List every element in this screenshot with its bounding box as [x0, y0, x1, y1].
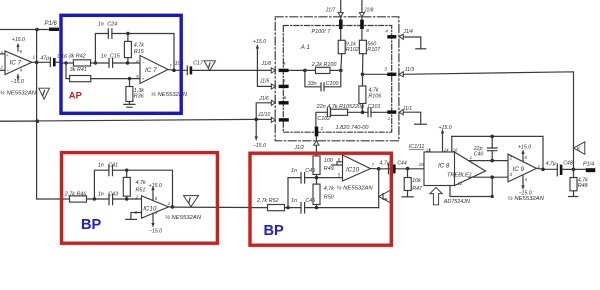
svg-text:15: 15: [419, 162, 425, 167]
svg-text:C101: C101: [368, 104, 381, 110]
svg-text:C43: C43: [108, 192, 118, 198]
svg-text:4,7µ: 4,7µ: [546, 161, 556, 167]
svg-text:−15.0: −15.0: [253, 143, 266, 149]
svg-text:R106: R106: [368, 93, 381, 99]
svg-text:22n: 22n: [316, 104, 326, 110]
svg-text:1n: 1n: [98, 192, 104, 198]
svg-text:J1/6: J1/6: [258, 96, 269, 102]
svg-text:BP: BP: [264, 223, 285, 239]
svg-text:2,7k R52: 2,7k R52: [256, 198, 279, 204]
svg-text:4: 4: [385, 29, 388, 34]
svg-text:AD7524JN: AD7524JN: [443, 199, 470, 205]
svg-text:C15: C15: [110, 53, 121, 59]
svg-text:A 1: A 1: [300, 44, 311, 51]
svg-text:1: 1: [470, 155, 472, 160]
svg-text:C100: C100: [326, 81, 339, 87]
svg-text:4,7k: 4,7k: [134, 42, 144, 48]
svg-text:R51: R51: [136, 188, 146, 194]
svg-text:1.820.740-00: 1.820.740-00: [336, 125, 370, 131]
svg-text:−15.0: −15.0: [11, 79, 24, 85]
svg-text:5: 5: [283, 78, 286, 83]
svg-text:IC 7: IC 7: [10, 60, 22, 67]
svg-text:12: 12: [458, 181, 463, 186]
svg-text:C44: C44: [397, 160, 407, 166]
svg-text:R50: R50: [324, 194, 334, 200]
svg-text:J1/8: J1/8: [261, 61, 272, 67]
svg-text:+: +: [142, 77, 145, 82]
svg-text:IC1/11: IC1/11: [409, 144, 424, 150]
svg-text:1n: 1n: [98, 162, 104, 168]
svg-text:−15.0: −15.0: [149, 228, 162, 234]
svg-text:AP: AP: [69, 90, 82, 101]
svg-text:33n: 33n: [308, 81, 317, 87]
svg-text:−: −: [142, 60, 145, 65]
svg-text:C46: C46: [305, 198, 315, 204]
svg-text:6: 6: [284, 95, 287, 100]
svg-text:4,7k: 4,7k: [324, 186, 334, 192]
svg-text:IC 7: IC 7: [145, 67, 157, 74]
svg-text:R49: R49: [324, 166, 334, 172]
svg-text:R47: R47: [412, 186, 423, 192]
svg-text:+15.0: +15.0: [253, 39, 266, 45]
svg-text:K: K: [577, 147, 581, 153]
svg-text:C41: C41: [108, 162, 118, 168]
svg-text:8: 8: [366, 28, 369, 33]
svg-text:½ NE5532AN: ½ NE5532AN: [508, 195, 545, 202]
svg-text:R36: R36: [134, 94, 144, 100]
svg-text:½ NE5532AN: ½ NE5532AN: [0, 90, 37, 97]
svg-text:1n: 1n: [291, 168, 297, 174]
svg-text:10k: 10k: [412, 178, 421, 184]
svg-text:J1/5: J1/5: [259, 79, 270, 85]
svg-text:C40: C40: [474, 152, 484, 158]
svg-text:9: 9: [283, 61, 286, 66]
svg-text:+15.0: +15.0: [12, 37, 25, 43]
svg-text:3: 3: [384, 66, 387, 71]
svg-text:1n: 1n: [98, 22, 104, 28]
svg-text:J1/1: J1/1: [402, 106, 413, 112]
svg-text:100: 100: [324, 158, 333, 164]
svg-text:J1/7: J1/7: [325, 7, 336, 13]
svg-text:4,7k: 4,7k: [136, 180, 146, 186]
svg-text:+15.0: +15.0: [439, 125, 452, 131]
svg-text:1: 1: [168, 201, 170, 206]
svg-text:1n: 1n: [291, 198, 297, 204]
svg-text:+: +: [6, 53, 9, 58]
svg-text:J1/2: J1/2: [294, 145, 305, 151]
svg-text:3k R42: 3k R42: [69, 53, 86, 59]
svg-text:J1/10: J1/10: [257, 112, 270, 118]
svg-text:P100/ 7: P100/ 7: [312, 29, 332, 35]
svg-text:R102: R102: [346, 47, 359, 53]
svg-text:C102: C102: [317, 116, 330, 122]
svg-text:−: −: [6, 68, 9, 73]
svg-text:2: 2: [320, 126, 324, 131]
svg-text:220p: 220p: [351, 104, 364, 110]
svg-text:1n: 1n: [101, 53, 107, 59]
svg-text:+15.0: +15.0: [518, 145, 531, 151]
svg-text:J1/3: J1/3: [404, 67, 415, 73]
svg-text:4,7k R105: 4,7k R105: [327, 104, 353, 110]
svg-text:47µ: 47µ: [40, 55, 49, 61]
svg-text:R15: R15: [134, 49, 145, 55]
svg-text:1: 1: [33, 55, 35, 60]
svg-text:IC 8: IC 8: [438, 162, 450, 169]
svg-text:2,7k R46: 2,7k R46: [64, 191, 87, 197]
svg-text:R48: R48: [578, 183, 588, 189]
svg-text:BP: BP: [81, 217, 102, 233]
svg-text:1: 1: [388, 116, 391, 121]
svg-text:J1/4: J1/4: [402, 29, 413, 35]
svg-text:C45: C45: [305, 168, 316, 174]
svg-text:½ NE5532AN: ½ NE5532AN: [337, 184, 374, 191]
svg-text:IC10: IC10: [346, 166, 360, 173]
svg-text:C48: C48: [563, 161, 573, 167]
svg-text:R107: R107: [367, 47, 381, 53]
svg-text:2,2k R100: 2,2k R100: [311, 62, 337, 68]
svg-text:J1/8: J1/8: [363, 7, 374, 13]
svg-text:P1/4: P1/4: [583, 161, 594, 167]
svg-text:½ NE5532AN: ½ NE5532AN: [165, 214, 202, 221]
svg-text:3k R41: 3k R41: [70, 67, 87, 73]
svg-text:TREBLE: TREBLE: [447, 173, 469, 179]
svg-text:+15.0: +15.0: [149, 183, 162, 189]
svg-text:C24: C24: [107, 22, 117, 28]
svg-text:P1/6: P1/6: [45, 21, 58, 27]
svg-text:C17: C17: [193, 61, 204, 67]
svg-text:IC 9: IC 9: [513, 166, 525, 173]
